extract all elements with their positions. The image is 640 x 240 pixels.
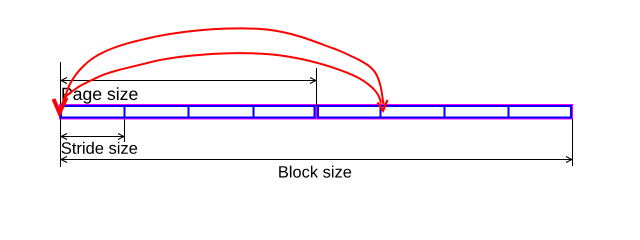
red arrowhead at page 2 start [378,100,388,111]
label: Stride size [62,142,138,154]
page size measure: right extension line [316,68,318,106]
page 2 cell divider 1 [380,105,382,119]
page 1 cell divider 2 [188,105,190,119]
stride size arrowhead right [118,134,124,140]
page 1 cell divider 1 [124,105,126,119]
page 1 cell divider 3 [253,105,255,119]
page size measure: left extension line [61,62,573,167]
stride size measure: dimension line [61,136,124,138]
page 2 cell divider 2 [444,105,446,119]
block size measure: dimension line [61,159,572,161]
label: Page size [62,87,137,103]
stride size arrowhead left [61,134,67,140]
page size arrowhead left [61,78,572,163]
page 2 inner blue box [318,106,571,118]
block bar: page 1 outer magenta box [60,105,573,120]
red jump arc outer (tall) [62,28,383,104]
stride size measure: left extension line [60,119,62,167]
page 1 inner blue box [61,106,315,118]
red jump arc inner (shallow) [66,53,382,103]
block size arrowhead left [61,157,67,163]
page size measure: dimension line [61,80,316,82]
label: Block size [279,166,351,178]
red arrowhead at block start (thick) [54,98,67,114]
block size arrowhead right [566,157,572,163]
block size measure: right extension line [572,119,574,166]
stride size measure: right extension line [124,119,126,142]
block bar: page 2 outer magenta box [317,105,573,120]
page size arrowhead right [310,78,316,84]
page 2 cell divider 3 [508,105,510,119]
